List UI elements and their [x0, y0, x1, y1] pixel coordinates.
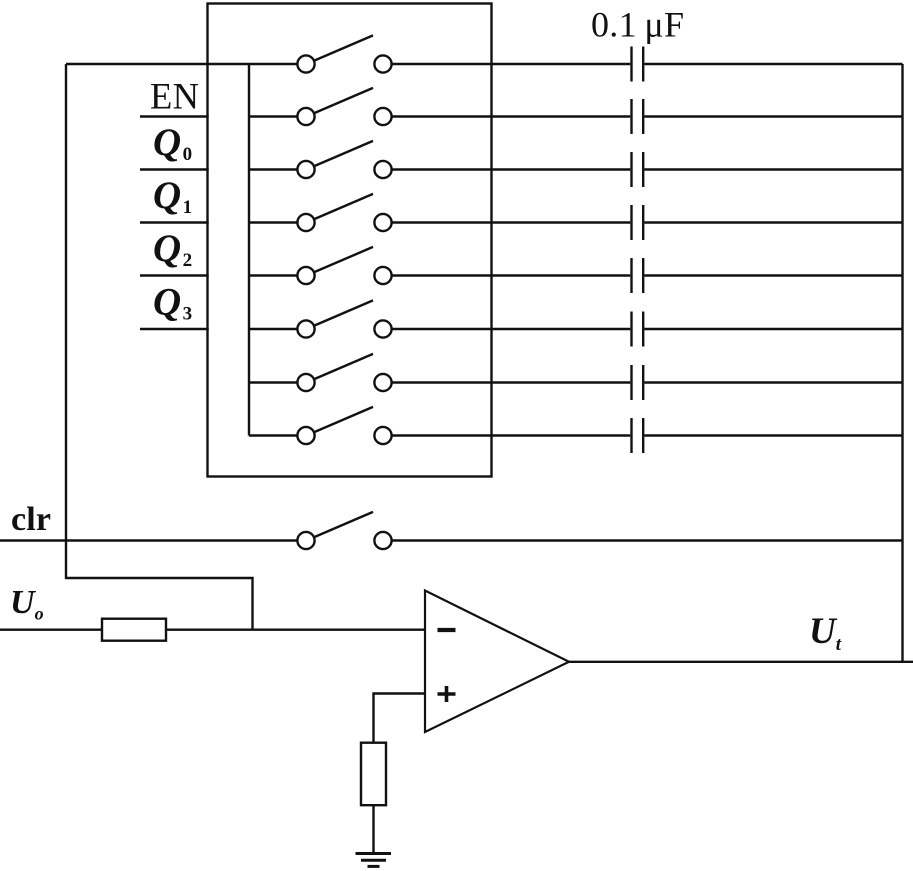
switch S7	[297, 354, 391, 391]
wire: row 2 left segment	[249, 115, 297, 117]
switch S3	[297, 141, 391, 178]
wire: row 4 from switch to capacitor	[392, 221, 631, 223]
switch S2	[297, 88, 391, 125]
wire: row 7 from capacitor to right bus	[644, 381, 902, 383]
capacitor C4 0.1uF	[632, 205, 644, 240]
capacitor C6 0.1uF	[632, 312, 644, 347]
wire: row 5 from capacitor to right bus	[644, 274, 902, 276]
bus: inner vertical wire feeding switch rows	[248, 64, 250, 436]
wire: Q3 label stub	[140, 328, 209, 330]
wire: row 2 from capacitor to right bus	[644, 115, 902, 117]
wire: R2 to ground	[372, 805, 374, 853]
wire: EN label stub	[140, 115, 209, 117]
switch S1	[297, 35, 391, 72]
switch S8	[297, 407, 391, 444]
op-amp U1	[425, 591, 569, 733]
capacitor C7 0.1uF	[632, 365, 644, 400]
wire: row 7 left segment	[249, 381, 297, 383]
wire: left vertical bus from row1 down, then right and down to inverting node	[66, 64, 253, 630]
svg-text:clr: clr	[11, 501, 51, 538]
wire: row 7 from switch to capacitor	[392, 381, 631, 383]
capacitor C5 0.1uF	[632, 258, 644, 293]
wire: clr right segment to right bus	[392, 539, 903, 541]
wire: clr left segment	[0, 539, 297, 541]
svg-text:0.1 μF: 0.1 μF	[591, 4, 684, 44]
capacitor C1 0.1uF	[632, 47, 644, 82]
wire: row 4 left segment	[249, 221, 297, 223]
wire: row 5 left segment	[249, 274, 297, 276]
wire: Uo input to R1	[0, 629, 102, 631]
resistor R1	[102, 619, 166, 641]
wire: row 6 left segment	[249, 328, 297, 330]
wire: row 3 from capacitor to right bus	[644, 168, 902, 170]
bus: right vertical wire (Ut node)	[901, 64, 903, 662]
switch S4	[297, 194, 391, 231]
capacitor C2 0.1uF	[632, 99, 644, 134]
wire: row 4 from capacitor to right bus	[644, 221, 902, 223]
switch box (analog switch array outline)	[208, 4, 492, 477]
switch S5	[297, 247, 391, 284]
ground	[356, 854, 392, 867]
switch S9 (clr)	[297, 512, 391, 549]
wire: Q1 label stub	[140, 221, 209, 223]
wire: row 8 left segment	[249, 434, 297, 436]
wire: row 2 from switch to capacitor	[392, 115, 631, 117]
wire: row 6 from switch to capacitor	[392, 328, 631, 330]
wire: non-inverting input down to R2	[374, 694, 426, 743]
wire: row 1 feed from left bus to switch	[66, 63, 297, 65]
capacitor C8 0.1uF	[632, 418, 644, 453]
wire: row 6 from capacitor to right bus	[644, 328, 902, 330]
wire: row 3 left segment	[249, 168, 297, 170]
wire: row 1 from capacitor to right bus	[644, 63, 902, 65]
wire: row 3 from switch to capacitor	[392, 168, 631, 170]
svg-text:EN: EN	[150, 76, 199, 117]
wire: row 8 from switch to capacitor	[392, 434, 631, 436]
wire: row 1 from switch to capacitor	[392, 63, 631, 65]
resistor R2	[361, 743, 386, 806]
wire: row 8 from capacitor to right bus	[644, 434, 902, 436]
wire: Q0 label stub	[140, 168, 209, 170]
wire: row 5 from switch to capacitor	[392, 274, 631, 276]
wire: R1 to op-amp inverting input	[166, 629, 425, 631]
switch S6	[297, 300, 391, 337]
capacitor C3 0.1uF	[632, 152, 644, 187]
wire: Q2 label stub	[140, 274, 209, 276]
wire: op-amp output to right bus	[569, 661, 913, 663]
